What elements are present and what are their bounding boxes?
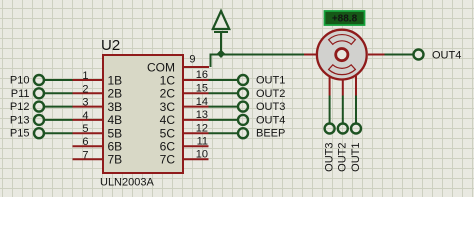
wire P15 to pin 5 <box>44 132 72 134</box>
wire pin 14 to terminal OUT3 <box>209 106 239 108</box>
svg-text:OUT4: OUT4 <box>256 114 285 126</box>
pin 13 (4C) <box>160 109 209 127</box>
svg-text:P10: P10 <box>10 75 30 87</box>
power terminal (VCC arrow) <box>213 11 229 55</box>
svg-text:6: 6 <box>82 136 88 148</box>
pin 2 (2B) <box>73 83 123 100</box>
svg-text:10: 10 <box>196 149 208 161</box>
terminal OUT3 (vertical) <box>324 124 336 172</box>
motor RPM display (+88.8) <box>325 11 365 25</box>
wire pin 15 to terminal OUT2 <box>209 92 239 94</box>
terminal P15 <box>10 128 44 140</box>
pin 3 (3B) <box>73 97 123 114</box>
svg-text:16: 16 <box>196 69 208 81</box>
svg-text:7: 7 <box>82 149 88 161</box>
wire COM net: pin 9 up to power rail <box>211 55 305 68</box>
svg-text:14: 14 <box>196 96 208 108</box>
wire P10 to pin 1 <box>44 79 72 81</box>
svg-text:6B: 6B <box>108 140 123 154</box>
svg-text:1B: 1B <box>108 73 123 87</box>
wire P13 to pin 4 <box>44 119 72 121</box>
terminal OUT2 <box>238 88 285 100</box>
svg-text:5C: 5C <box>160 127 176 141</box>
svg-text:OUT2: OUT2 <box>256 88 285 100</box>
terminal OUT4 (motor) <box>414 50 462 62</box>
svg-text:P11: P11 <box>11 88 30 100</box>
svg-text:12: 12 <box>196 122 208 134</box>
svg-text:+88.8: +88.8 <box>332 14 358 25</box>
wire motor lead to terminal OUT3 <box>329 96 331 124</box>
svg-text:9: 9 <box>189 54 195 66</box>
pin 5 (5B) <box>73 123 123 140</box>
svg-text:OUT1: OUT1 <box>350 143 362 172</box>
svg-text:COM: COM <box>147 60 175 74</box>
svg-text:OUT3: OUT3 <box>324 143 336 172</box>
pin 16 (1C) <box>160 69 209 87</box>
svg-text:5: 5 <box>82 123 88 135</box>
svg-text:OUT4: OUT4 <box>432 50 461 62</box>
terminal BEEP <box>238 128 285 140</box>
terminal P10 <box>10 75 44 87</box>
svg-text:2B: 2B <box>108 87 123 101</box>
svg-text:OUT2: OUT2 <box>337 143 349 172</box>
wire pin 16 to terminal OUT1 <box>209 79 239 81</box>
svg-text:6C: 6C <box>160 140 176 154</box>
pin 11 (6C) <box>160 135 209 153</box>
wire motor lead to terminal OUT1 <box>355 96 357 124</box>
pin 4 (4B) <box>73 110 123 127</box>
svg-text:OUT1: OUT1 <box>256 75 285 87</box>
svg-text:5B: 5B <box>108 127 123 141</box>
terminal OUT3 <box>238 101 285 113</box>
svg-text:4C: 4C <box>160 113 176 127</box>
svg-text:4: 4 <box>82 110 88 122</box>
svg-text:ULN2003A: ULN2003A <box>100 177 154 189</box>
terminal P13 <box>10 114 44 126</box>
svg-text:3B: 3B <box>108 100 123 114</box>
chip U2 body <box>100 37 183 189</box>
svg-text:2C: 2C <box>160 87 176 101</box>
svg-text:1C: 1C <box>160 73 176 87</box>
motor M1 (stepper) <box>304 30 385 96</box>
pin 15 (2C) <box>160 83 209 101</box>
svg-text:P15: P15 <box>10 128 30 140</box>
pin 6 (6B) <box>73 136 123 153</box>
svg-text:BEEP: BEEP <box>256 128 285 140</box>
terminal P11 <box>11 88 44 100</box>
svg-text:3C: 3C <box>160 100 176 114</box>
wire pin 12 to terminal BEEP <box>209 132 239 134</box>
wire P11 to pin 2 <box>44 92 72 94</box>
wire motor to terminal OUT4 <box>385 54 414 56</box>
pin 7 (7B) <box>73 149 123 166</box>
svg-text:13: 13 <box>196 109 208 121</box>
svg-text:7B: 7B <box>108 153 123 167</box>
terminal OUT1 <box>238 75 285 87</box>
terminal OUT1 (vertical) <box>350 124 362 172</box>
wire motor lead to terminal OUT2 <box>342 96 344 124</box>
svg-text:7C: 7C <box>160 153 176 167</box>
svg-text:P13: P13 <box>10 114 30 126</box>
svg-text:OUT3: OUT3 <box>256 101 285 113</box>
pin 1 (1B) <box>73 70 123 87</box>
svg-text:2: 2 <box>82 83 88 95</box>
terminal OUT2 (vertical) <box>337 124 349 172</box>
pin 14 (3C) <box>160 96 209 114</box>
svg-text:4B: 4B <box>108 113 123 127</box>
terminal OUT4 <box>238 114 285 126</box>
pin 9 (COM) <box>147 54 209 75</box>
svg-text:3: 3 <box>82 97 88 109</box>
svg-text:1: 1 <box>82 70 88 82</box>
svg-text:U2: U2 <box>101 37 120 54</box>
pin 10 (7C) <box>160 149 209 167</box>
svg-text:11: 11 <box>197 135 208 147</box>
pin 12 (5C) <box>160 122 209 140</box>
wire pin 13 to terminal OUT4 <box>209 119 239 121</box>
junction dot at COM/power <box>217 50 225 58</box>
svg-text:15: 15 <box>196 83 208 95</box>
terminal P12 <box>10 101 44 113</box>
svg-text:P12: P12 <box>10 101 30 113</box>
wire P12 to pin 3 <box>44 106 72 108</box>
